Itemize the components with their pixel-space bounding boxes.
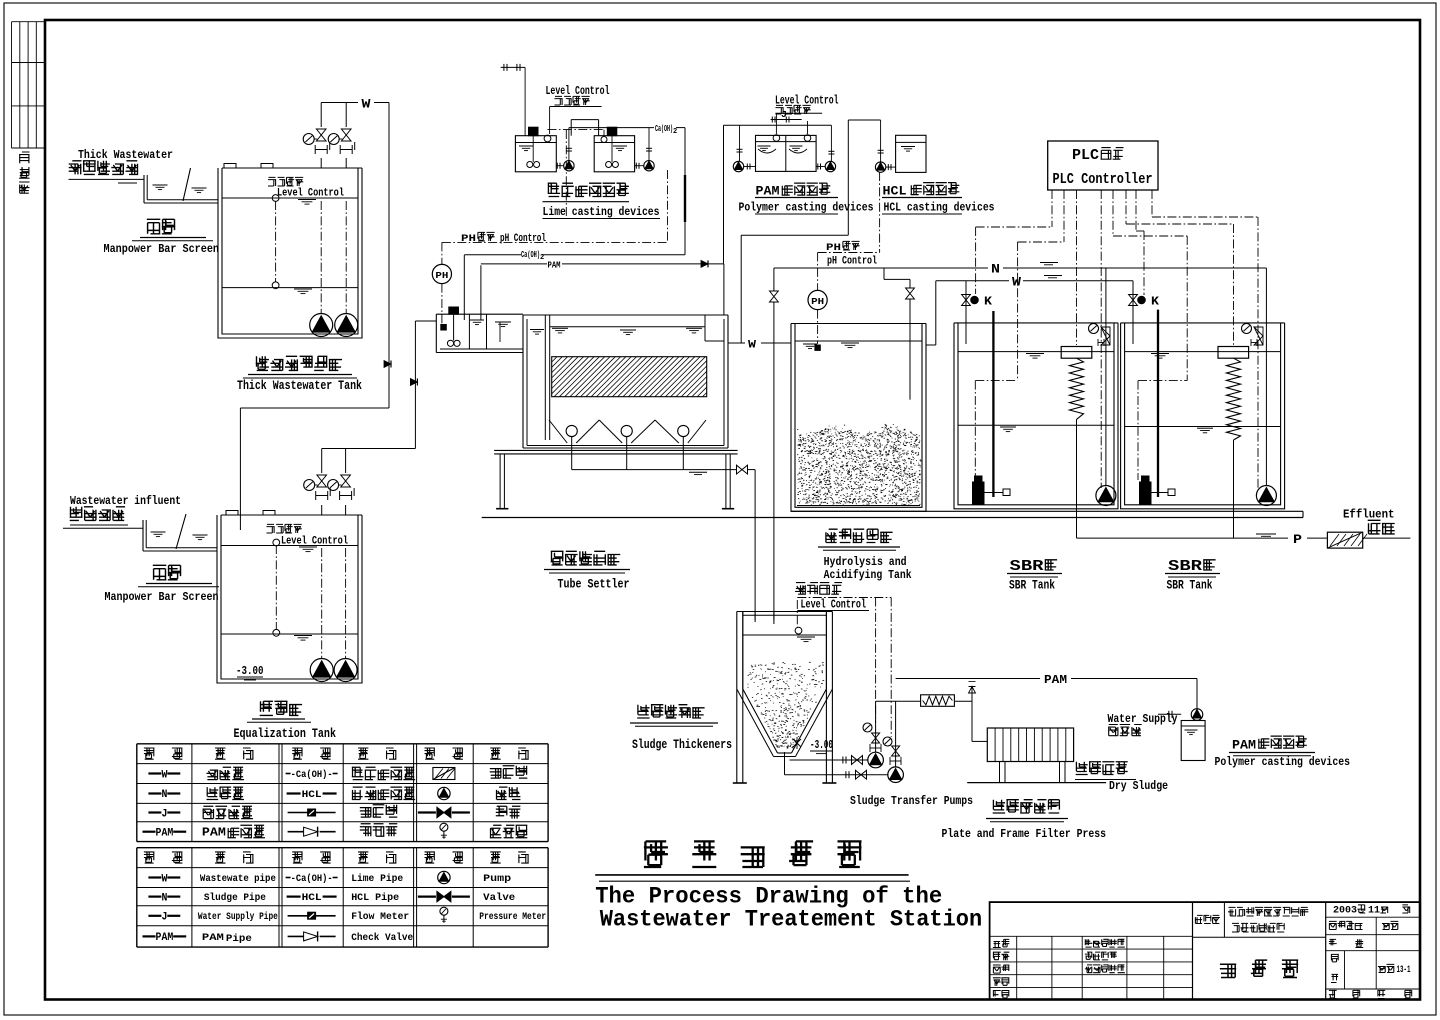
svg-text:Plate and Frame Filter Press: Plate and Frame Filter Press xyxy=(942,827,1107,841)
svg-text:Valve: Valve xyxy=(483,892,515,904)
svg-text:J: J xyxy=(161,912,167,924)
svg-text:PAM: PAM xyxy=(202,932,224,944)
svg-text:PAM: PAM xyxy=(1044,673,1067,687)
svg-text:SBR: SBR xyxy=(1168,558,1202,575)
svg-text:Dry Sludge: Dry Sludge xyxy=(1109,780,1168,793)
svg-text:PH: PH xyxy=(435,270,448,281)
svg-text:Sludge Thickeners: Sludge Thickeners xyxy=(632,738,732,752)
svg-text:W: W xyxy=(161,873,167,885)
svg-text:P: P xyxy=(1293,533,1302,547)
svg-text:Ca(OH): Ca(OH) xyxy=(521,249,540,260)
svg-text:Sludge Pipe: Sludge Pipe xyxy=(204,892,266,904)
svg-text:-Ca(OH)-: -Ca(OH)- xyxy=(291,769,333,781)
svg-text:J: J xyxy=(781,110,787,120)
svg-text:13-1: 13-1 xyxy=(1397,965,1411,976)
svg-text:-3.00: -3.00 xyxy=(236,664,264,678)
svg-text:PAM: PAM xyxy=(156,932,174,944)
svg-text:Manpower Bar Screen: Manpower Bar Screen xyxy=(104,242,220,256)
svg-text:Wastewater influent: Wastewater influent xyxy=(70,495,181,508)
svg-text:Check Valve: Check Valve xyxy=(351,932,413,944)
svg-text:PAM: PAM xyxy=(548,260,561,271)
svg-text:J: J xyxy=(161,808,167,820)
svg-text:Polymer casting devices: Polymer casting devices xyxy=(739,202,874,215)
svg-text:PAM: PAM xyxy=(156,828,174,840)
svg-text:Lime Pipe: Lime Pipe xyxy=(351,873,403,885)
svg-text:N: N xyxy=(991,262,1000,277)
svg-text:-Ca(OH)-: -Ca(OH)- xyxy=(291,873,333,885)
svg-text:Acidifying Tank: Acidifying Tank xyxy=(824,568,912,582)
svg-text:Pump: Pump xyxy=(483,873,511,885)
svg-text:PAM: PAM xyxy=(202,827,226,840)
svg-text:Wastewate pipe: Wastewate pipe xyxy=(200,873,276,885)
svg-text:W: W xyxy=(362,97,371,112)
svg-text:PH: PH xyxy=(461,233,476,245)
svg-text:pH Control: pH Control xyxy=(500,233,546,245)
svg-text:11: 11 xyxy=(1368,905,1380,917)
svg-text:PLC: PLC xyxy=(1072,148,1099,164)
svg-text:Thick Wastewater: Thick Wastewater xyxy=(78,149,173,162)
svg-text:-3.00: -3.00 xyxy=(810,739,833,752)
svg-text:Tube Settler: Tube Settler xyxy=(558,578,630,592)
svg-text:W: W xyxy=(1012,274,1021,289)
svg-text:Level Control: Level Control xyxy=(277,188,344,200)
svg-text:Sludge Transfer Pumps: Sludge Transfer Pumps xyxy=(850,795,973,808)
svg-text:Pipe: Pipe xyxy=(226,933,252,945)
svg-text:N: N xyxy=(161,789,167,801)
svg-text:PLC Controller: PLC Controller xyxy=(1053,172,1153,188)
svg-text:HCL Pipe: HCL Pipe xyxy=(351,892,399,904)
svg-text:Water Supply Pipe: Water Supply Pipe xyxy=(198,911,278,923)
svg-text:Water Supply: Water Supply xyxy=(1108,713,1178,726)
svg-text:Thick Wastewater Tank: Thick Wastewater Tank xyxy=(237,379,362,393)
svg-text:Polymer casting devices: Polymer casting devices xyxy=(1215,756,1351,769)
svg-text:HCL: HCL xyxy=(302,892,322,904)
svg-text:W: W xyxy=(161,769,167,781)
svg-text:K: K xyxy=(1151,296,1159,309)
svg-text:pH Control: pH Control xyxy=(827,256,877,268)
svg-text:Pressure Meter: Pressure Meter xyxy=(479,911,546,923)
svg-text:Ca(OH): Ca(OH) xyxy=(655,123,673,134)
svg-text:N: N xyxy=(161,892,167,904)
svg-text:HCL: HCL xyxy=(302,789,322,801)
svg-text:Lime casting devices: Lime casting devices xyxy=(543,206,660,219)
svg-text:2: 2 xyxy=(540,254,544,262)
svg-text:Level Control: Level Control xyxy=(801,599,867,612)
svg-text:HCL casting devices: HCL casting devices xyxy=(884,202,995,215)
svg-text:SBR: SBR xyxy=(1010,558,1044,575)
svg-text:PH: PH xyxy=(811,296,824,307)
svg-text:Effluent: Effluent xyxy=(1343,509,1395,522)
svg-text:SBR Tank: SBR Tank xyxy=(1167,579,1213,593)
svg-text:Level Control: Level Control xyxy=(281,536,348,548)
svg-text:Wastewater Treatement Station: Wastewater Treatement Station xyxy=(600,907,983,933)
svg-text:Equalization Tank: Equalization Tank xyxy=(234,727,337,741)
svg-text:Manpower Bar Screen: Manpower Bar Screen xyxy=(105,590,219,604)
svg-text:HCL: HCL xyxy=(883,184,907,199)
svg-text:2: 2 xyxy=(673,128,677,136)
svg-text:2003: 2003 xyxy=(1333,905,1357,917)
svg-text:PH: PH xyxy=(826,242,841,254)
svg-text:PAM: PAM xyxy=(756,184,780,199)
svg-text:PAM: PAM xyxy=(1232,738,1256,753)
svg-text:Hydrolysis and: Hydrolysis and xyxy=(824,555,907,569)
svg-text:W: W xyxy=(748,340,756,352)
svg-text:Flow Meter: Flow Meter xyxy=(351,911,409,923)
svg-text:SBR Tank: SBR Tank xyxy=(1009,579,1055,593)
svg-text:K: K xyxy=(984,296,992,309)
